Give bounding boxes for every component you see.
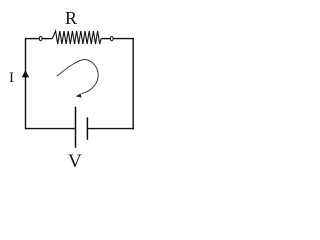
clockwise loop arrow head [76, 93, 82, 98]
wire resistor lead left [42, 38, 52, 40]
label V voltage source [68, 151, 82, 173]
resistor R1 left terminal [39, 36, 42, 40]
wire right side [132, 38, 134, 129]
label I current [9, 70, 14, 87]
wire bottom-right segment [88, 128, 134, 130]
wire top-right segment [113, 38, 133, 40]
resistor R1 zigzag [52, 31, 101, 44]
battery V long plate (positive) [75, 107, 77, 148]
wire top-left segment [26, 38, 40, 40]
battery V short plate (negative) [86, 117, 88, 139]
label R resistor value [65, 8, 77, 29]
resistor R1 right terminal [110, 36, 113, 40]
clockwise loop arrow arc [57, 59, 98, 93]
wire resistor lead right [101, 38, 110, 40]
wire bottom-left segment [26, 128, 75, 130]
current direction arrowhead on left wire [22, 70, 29, 77]
wire left side [25, 38, 27, 129]
